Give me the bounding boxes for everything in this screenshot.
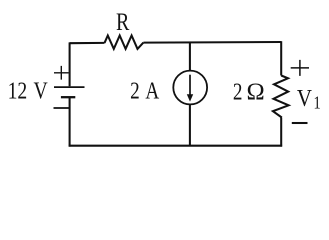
- resistor 2 ohm (vertical zigzag): [273, 76, 289, 118]
- plus sign (V1 polarity): [291, 60, 309, 76]
- battery long plate (positive): [54, 86, 85, 88]
- wire bottom: [69, 145, 282, 147]
- wire right upper: [280, 41, 282, 75]
- wire top-right segment: [143, 41, 281, 44]
- minus sign (V1 polarity): [292, 122, 308, 124]
- svg-text:Ω: Ω: [247, 79, 265, 106]
- battery V=12V plus sign: [54, 66, 69, 80]
- wire left lower (battery to bottom): [69, 97, 71, 146]
- wire right lower: [280, 118, 282, 147]
- battery minus tick: [54, 107, 71, 109]
- svg-text:V: V: [297, 85, 312, 112]
- current source circle: [173, 71, 207, 105]
- svg-text:2: 2: [233, 78, 243, 105]
- wire middle lower (current source to bottom): [189, 104, 191, 145]
- current source arrowhead: [187, 94, 193, 101]
- svg-text:2 A: 2 A: [130, 77, 159, 104]
- current source arrow shaft: [189, 75, 191, 95]
- svg-text:12 V: 12 V: [8, 77, 48, 104]
- battery short plate (negative): [61, 96, 75, 98]
- wire left upper (to battery): [69, 42, 71, 86]
- svg-text:R: R: [116, 8, 130, 36]
- wire middle upper (top to current source): [189, 42, 191, 71]
- resistor R (zigzag): [105, 36, 144, 49]
- wire top-left segment: [70, 42, 105, 44]
- svg-text:1: 1: [314, 92, 321, 113]
